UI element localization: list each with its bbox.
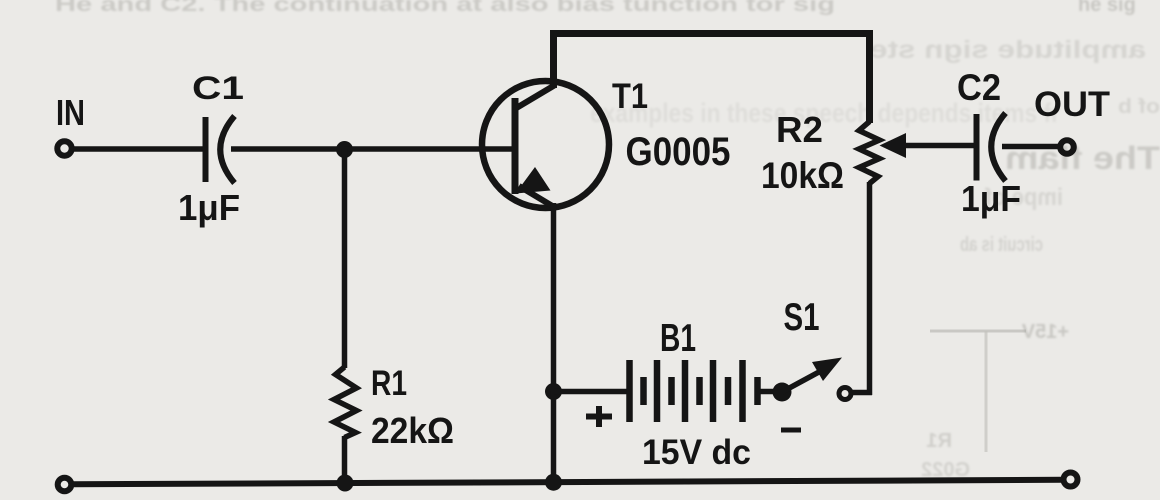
wire top rail down to R2 bbox=[866, 31, 873, 124]
switch S1 bbox=[773, 358, 873, 402]
svg-text:S1: S1 bbox=[784, 296, 820, 339]
svg-text:G0005: G0005 bbox=[626, 130, 731, 174]
wire collector to top rail bbox=[550, 31, 557, 89]
svg-text:He and C2. The continuation at: He and C2. The continuation at also bias… bbox=[55, 0, 835, 16]
svg-text:10kΩ: 10kΩ bbox=[761, 155, 844, 196]
wire R1 to bottom rail bbox=[342, 436, 348, 484]
wire battery to switch pole bbox=[760, 389, 782, 395]
svg-text:he sig: he sig bbox=[1078, 0, 1136, 16]
wire junction to battery bbox=[554, 389, 630, 395]
wire C1 to node A bbox=[231, 146, 345, 152]
label battery minus bbox=[781, 428, 801, 433]
transistor T1 bbox=[482, 81, 609, 208]
svg-text:of b: of b bbox=[1118, 96, 1160, 118]
potentiometer R2 bbox=[859, 122, 880, 184]
svg-text:R1: R1 bbox=[926, 430, 952, 452]
node A junction bbox=[336, 141, 353, 158]
terminal OUT bbox=[1060, 140, 1074, 154]
R2 wiper arrow bbox=[880, 133, 978, 158]
wire bottom rail bbox=[72, 480, 1065, 485]
svg-text:22kΩ: 22kΩ bbox=[371, 410, 454, 451]
svg-text:IN: IN bbox=[56, 92, 85, 133]
svg-text:R2: R2 bbox=[776, 109, 823, 150]
node emitter-rail junction bbox=[545, 474, 562, 491]
node R1-rail junction bbox=[337, 475, 354, 492]
svg-text:B1: B1 bbox=[660, 317, 696, 360]
svg-text:15V dc: 15V dc bbox=[642, 433, 751, 472]
svg-text:C2: C2 bbox=[957, 67, 1001, 108]
wire top rail bbox=[550, 30, 873, 37]
wire R2 bottom to switch bbox=[867, 182, 873, 395]
label battery plus bbox=[586, 406, 612, 427]
svg-text:T1: T1 bbox=[612, 77, 648, 116]
capacitor C1 bbox=[206, 116, 235, 183]
svg-text:circuit is ab: circuit is ab bbox=[960, 234, 1043, 256]
wire emitter junction to bottom rail bbox=[551, 391, 557, 483]
svg-text:amplitude sign ste: amplitude sign ste bbox=[870, 36, 1146, 64]
svg-text:R1: R1 bbox=[371, 364, 407, 403]
svg-text:1μF: 1μF bbox=[961, 178, 1021, 219]
wire C2 to OUT bbox=[1002, 144, 1060, 150]
terminal bottom left bbox=[58, 478, 72, 492]
wire emitter down bbox=[551, 203, 557, 392]
svg-text:C1: C1 bbox=[192, 70, 244, 106]
wire IN to C1 bbox=[72, 146, 206, 152]
resistor R1 bbox=[334, 367, 357, 438]
wire node A to base bbox=[344, 146, 515, 152]
terminal IN bbox=[57, 141, 71, 155]
terminal bottom right bbox=[1064, 473, 1078, 487]
node emitter-battery junction bbox=[545, 383, 562, 400]
svg-text:OUT: OUT bbox=[1034, 85, 1110, 124]
wire node A down to R1 bbox=[342, 149, 348, 368]
battery B1 bbox=[630, 360, 758, 422]
svg-text:1μF: 1μF bbox=[178, 187, 240, 228]
svg-text:+15V: +15V bbox=[1021, 321, 1069, 343]
capacitor C2 bbox=[977, 113, 1006, 181]
